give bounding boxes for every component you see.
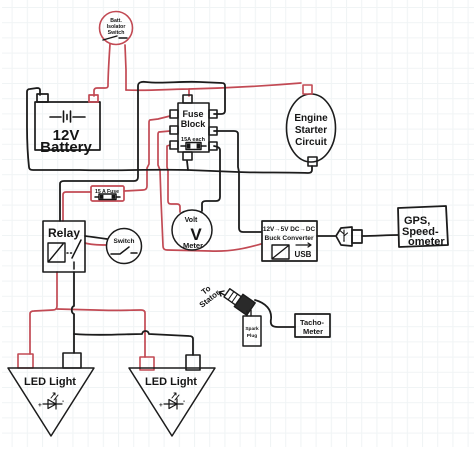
wire relay bottom black to left LED (72, 272, 74, 353)
svg-text:Meter: Meter (183, 241, 203, 250)
wire relay to switch black (85, 236, 107, 239)
wire red LED bus to right LED (57, 309, 145, 357)
svg-text:Block: Block (181, 119, 207, 129)
wire black LED bus to right LED (74, 331, 193, 355)
LED light D2 right (129, 355, 215, 436)
buck converter U1 12V-5V (262, 221, 317, 261)
wire relay bottom red to LED bus (30, 272, 57, 354)
svg-text:Relay: Relay (48, 226, 80, 240)
wire 15A fuse to relay top (63, 192, 91, 221)
svg-text:Volt: Volt (185, 217, 198, 224)
wire buck converter to usb plug (317, 235, 335, 237)
svg-text:LED Light: LED Light (145, 376, 197, 388)
svg-text:-: - (62, 398, 64, 405)
wire battery- to ground bus (27, 88, 312, 173)
wire fuse L2 down to buck converter (158, 131, 261, 251)
svg-text:USB: USB (295, 250, 312, 259)
engine starter circuit M1 (287, 85, 336, 166)
wire fuse L3 to volt meter (167, 145, 180, 212)
LED light D1 left (8, 353, 94, 436)
volt meter M2 (172, 210, 212, 250)
svg-text:12V→5V DC→DC: 12V→5V DC→DC (263, 226, 316, 233)
svg-text:LED Light: LED Light (24, 376, 76, 388)
battery isolator switch S1 (100, 12, 133, 45)
svg-text:Battery: Battery (40, 139, 92, 156)
wire fuse bottom stub to ground bus (187, 161, 188, 170)
svg-text:+: + (38, 402, 42, 409)
svg-text:Starter: Starter (295, 125, 327, 136)
svg-text:Tacho-: Tacho- (300, 318, 325, 327)
svg-text:ometer: ometer (408, 236, 445, 248)
svg-text:Engine: Engine (294, 113, 328, 124)
wire fuse R1 wrap-around to relay top (60, 82, 225, 221)
wire isolator switch to red bus (125, 45, 126, 90)
wire fuse R2 to buck converter (214, 131, 261, 232)
wire fuse L1 to 15A fuse to relay (124, 116, 170, 191)
svg-text:Circuit: Circuit (295, 137, 327, 148)
svg-text:Spark: Spark (245, 326, 259, 332)
spark plug label box (243, 316, 261, 346)
wire red bus to fuse block top and engine starter (126, 83, 301, 90)
tachometer U3 (295, 314, 330, 337)
svg-text:Switch: Switch (108, 30, 125, 36)
svg-text:-: - (183, 398, 185, 405)
wire usb plug to gps (362, 235, 398, 236)
gps speedometer U2 (398, 206, 448, 248)
usb plug P1 (336, 227, 362, 246)
svg-text:Buck Converter: Buck Converter (264, 235, 314, 242)
relay K1 (43, 221, 85, 272)
svg-text:Switch: Switch (114, 238, 135, 245)
spark plug boot (223, 286, 255, 316)
svg-text:Plug: Plug (247, 333, 257, 339)
wire battery+ to isolator switch (94, 44, 110, 96)
fuse F2 15A inline (91, 186, 124, 201)
wire fuse top stub (188, 89, 190, 96)
svg-text:Fuse: Fuse (182, 109, 203, 119)
fuse block F1 (170, 95, 217, 160)
switch S2 (107, 229, 142, 264)
svg-text:Meter: Meter (303, 327, 323, 336)
wire relay to switch (85, 243, 106, 245)
wire fuse R3 to volt meter (202, 146, 220, 211)
svg-text:+: + (159, 402, 163, 409)
wire spark plug cable to tachometer (255, 300, 295, 327)
battery B1 12V (35, 94, 100, 156)
node To Stator label (198, 284, 228, 310)
